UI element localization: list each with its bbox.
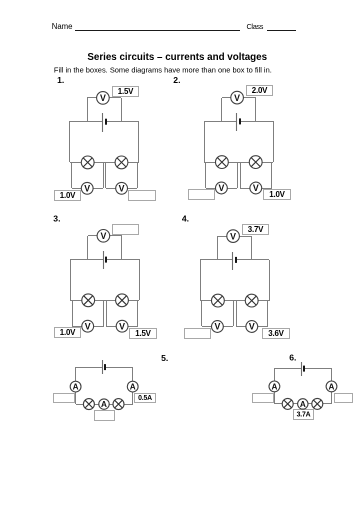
circuit 6: battery B6 short plate (303, 366, 305, 372)
circuit 2: wire V-meter left stub (222, 97, 231, 99)
circuit 2: answer box bottom-left (empty) (189, 190, 215, 200)
svg-text:Fill in the boxes. Some diagra: Fill in the boxes. Some diagrams have mo… (54, 66, 272, 75)
circuit 5: lamp 1 (83, 399, 94, 410)
circuit 2: wire drop left to V1 (205, 162, 207, 188)
circuit 5: ammeter A3 middle (99, 399, 109, 409)
circuit 4: battery B4 long plate (232, 252, 234, 270)
circuit 4: wire drop mid-left to V1 (233, 301, 235, 326)
circuit 5: wire bottom right (124, 404, 133, 406)
circuit 4: wire loop left edge (200, 260, 202, 301)
circuit 3: wire battery to top right (106, 259, 139, 261)
svg-text:1.0V: 1.0V (269, 190, 285, 199)
circuit 1: voltmeter V2 across lamp 2 (116, 182, 128, 194)
circuit 3: wire V2 level left (106, 326, 116, 328)
circuit 2: wire top left to battery (204, 121, 237, 123)
svg-text:1.: 1. (57, 75, 64, 85)
circuit 1: wire V2 level left (106, 188, 116, 190)
circuit 1: wire V2 level right (127, 188, 137, 190)
circuit 5: battery B5 short plate (104, 364, 106, 370)
circuit 1: wire V-meter left drop (87, 98, 89, 121)
circuit 2: wire lamp row left (204, 162, 216, 164)
circuit 2: answer box bottom-right (1.0V) (264, 190, 291, 200)
circuit 5: wire bottom left (76, 404, 83, 406)
circuit 2: wire loop left edge (204, 121, 206, 162)
circuit 4: wire top left to battery (200, 259, 233, 261)
circuit 1: wire top left to battery (70, 121, 103, 123)
circuit 5: wire ammeter to lamp2 (109, 404, 113, 406)
circuit 5: wire left edge lower (75, 392, 77, 404)
svg-text:Class: Class (247, 22, 264, 31)
circuit 1: wire drop right to V2 (137, 162, 139, 188)
circuit 3: wire V1 level right (94, 326, 104, 328)
circuit 5: answer box bottom (empty) (95, 411, 115, 421)
circuit 2: wire V-meter left drop (221, 98, 223, 121)
svg-text:1.0V: 1.0V (60, 191, 76, 200)
circuit 6: wire bottom right (323, 403, 332, 405)
svg-text:V: V (100, 231, 106, 241)
svg-text:2.0V: 2.0V (252, 86, 268, 95)
circuit 2: wire drop right to V2 (271, 162, 273, 188)
circuit 3: wire lamp row middle (95, 300, 116, 302)
circuit 1: wire V1 level right (93, 188, 103, 190)
circuit 4: wire V1 level left (202, 326, 212, 328)
circuit 1: answer box bottom-right (empty) (129, 191, 156, 201)
circuit 5: wire lamp1 to ammeter (94, 404, 99, 406)
circuit 2: voltmeter across battery (231, 91, 244, 104)
circuit 2: lamp 1 (216, 156, 229, 169)
circuit 6: wire lamp1 to ammeter (293, 403, 298, 405)
svg-text:V: V (85, 321, 91, 331)
svg-text:V: V (84, 184, 90, 194)
circuit 5: wire right edge upper (132, 367, 134, 381)
circuit 3: lamp 2 (116, 294, 129, 307)
circuit 1: wire lamp row left (70, 162, 81, 164)
circuit 3: answer box top (empty) (113, 225, 139, 235)
circuit 4: battery B4 short plate (235, 257, 237, 263)
circuit 3: lamp 1 (82, 294, 95, 307)
svg-text:V: V (253, 183, 259, 193)
svg-text:5.: 5. (161, 353, 168, 363)
circuit 3: wire loop left edge (70, 259, 72, 300)
circuit 5: ammeter A2 right (127, 381, 138, 392)
circuit 6: ammeter A2 right (326, 381, 337, 392)
circuit 4: wire V-meter left stub (218, 236, 227, 238)
circuit 3: wire top left to battery (70, 259, 103, 261)
circuit 4: wire loop right edge (269, 260, 271, 301)
svg-text:V: V (214, 322, 220, 332)
circuit 4: wire drop mid-right to V2 (236, 301, 238, 326)
circuit 2: wire battery to top right (240, 121, 273, 123)
circuit 6: ammeter A1 left (269, 381, 280, 392)
circuit 2: wire V2 level right (262, 188, 272, 190)
circuit 2: wire V-meter right stub (243, 97, 256, 99)
circuit 6: wire right edge upper (331, 369, 333, 381)
circuit 5: answer box left (empty) (54, 394, 75, 403)
circuit 1: wire V-meter right stub (109, 97, 121, 99)
circuit 4: wire lamp row middle (224, 300, 245, 302)
circuit 6: answer box bottom (3.7A) (294, 410, 314, 420)
circuit 3: wire V-meter left drop (87, 236, 89, 259)
circuit 1: voltmeter across battery (97, 92, 110, 105)
circuit 4: wire lamp row left (200, 300, 212, 302)
circuit 6: wire ammeter to lamp2 (308, 403, 312, 405)
svg-text:6.: 6. (289, 353, 296, 363)
circuit 6: answer box right (empty) (335, 394, 353, 403)
circuit 3: answer box bottom-right (1.5V) (130, 329, 157, 339)
circuit 6: wire right edge lower (331, 392, 333, 404)
svg-text:V: V (119, 184, 125, 194)
circuit 4: answer box bottom-right (3.6V) (263, 329, 290, 339)
circuit 4: lamp 1 (212, 294, 225, 307)
circuit 4: answer box top (3.7V) (243, 225, 269, 235)
circuit 1: battery B1 short plate (105, 119, 107, 125)
circuit 6: lamp 1 (282, 398, 293, 409)
circuit 2: battery B2 long plate (236, 113, 238, 131)
svg-text:1.0V: 1.0V (60, 328, 76, 337)
circuit 1: answer box top (1.5V) (113, 87, 139, 97)
circuit 3: voltmeter V2 across lamp 2 (116, 320, 128, 332)
circuit 1: wire V-meter left stub (87, 97, 97, 99)
circuit 4: wire V2 level left (236, 326, 246, 328)
circuit 4: wire drop right to V2 (267, 301, 269, 326)
svg-text:3.7V: 3.7V (248, 225, 264, 234)
circuit 4: wire V-meter right drop (251, 236, 253, 260)
svg-text:Series circuits – currents and: Series circuits – currents and voltages (87, 52, 267, 63)
circuit 5: wire left edge upper (75, 367, 77, 381)
circuit 3: wire V-meter right drop (121, 236, 123, 259)
circuit 2: wire V1 level left (206, 188, 216, 190)
circuit 2: voltmeter V1 across lamp 1 (216, 182, 228, 194)
circuit 3: wire V1 level left (72, 326, 82, 328)
circuit 1: wire lamp row middle (94, 162, 115, 164)
circuit 6: wire left edge upper (274, 369, 276, 381)
circuit 2: voltmeter V2 across lamp 2 (250, 182, 262, 194)
circuit 6: wire left edge lower (274, 392, 276, 404)
circuit 3: battery B3 short plate (105, 257, 107, 263)
circuit 1: lamp 2 (115, 156, 128, 169)
circuit 6: wire battery to top right (304, 368, 332, 370)
circuit 5: wire top left to battery (76, 367, 103, 369)
circuit 2: wire V2 level left (240, 188, 250, 190)
svg-text:1.5V: 1.5V (118, 87, 134, 96)
circuit 2: wire drop mid-left to V1 (237, 162, 239, 188)
circuit 5: battery B5 long plate (102, 360, 104, 374)
circuit 5: ammeter A1 left (70, 381, 81, 392)
circuit 4: wire drop left to V1 (201, 301, 203, 326)
circuit 4: wire V2 level right (258, 326, 268, 328)
header: class underline (267, 30, 296, 32)
circuit 3: wire drop right to V2 (137, 300, 139, 326)
svg-text:A: A (271, 382, 277, 391)
circuit 4: lamp 2 (245, 294, 258, 307)
svg-text:2.: 2. (173, 75, 180, 85)
circuit 2: answer box top (2.0V) (247, 86, 273, 96)
circuit 2: wire V-meter right drop (255, 98, 257, 121)
svg-text:A: A (73, 383, 79, 392)
circuit 5: wire battery to top right (105, 367, 133, 369)
circuit 1: wire V-meter right drop (121, 98, 123, 121)
circuit 1: voltmeter V1 across lamp 1 (81, 182, 93, 194)
circuit 6: wire bottom left (274, 403, 282, 405)
circuit 2: wire drop mid-right to V2 (240, 162, 242, 188)
circuit 6: battery B6 long plate (301, 362, 303, 376)
circuit 2: wire lamp row right (262, 162, 273, 164)
svg-text:1.5V: 1.5V (135, 329, 151, 338)
circuit 2: wire loop right edge (273, 121, 275, 162)
circuit 3: battery B3 long plate (103, 251, 105, 269)
circuit 6: ammeter A3 middle (298, 399, 308, 409)
circuit 1: battery B1 long plate (102, 113, 104, 132)
circuit 3: wire loop right edge (139, 259, 141, 300)
circuit 3: wire drop left to V1 (72, 300, 74, 326)
svg-text:Name: Name (52, 22, 73, 31)
svg-text:V: V (230, 231, 236, 241)
svg-text:V: V (119, 321, 125, 331)
circuit 1: wire drop mid-left to V1 (103, 162, 105, 188)
svg-text:4.: 4. (182, 213, 189, 223)
svg-text:A: A (101, 400, 107, 409)
circuit 1: wire lamp row right (128, 162, 139, 164)
circuit 4: answer box bottom-left (empty) (185, 329, 211, 339)
svg-text:V: V (234, 93, 240, 103)
svg-text:3.7A: 3.7A (297, 412, 311, 419)
svg-text:3.: 3. (53, 214, 60, 224)
circuit 6: wire top left to battery (274, 368, 302, 370)
circuit 1: lamp 1 (81, 156, 94, 169)
svg-text:A: A (130, 383, 136, 392)
circuit 5: answer box right (0.5A) (135, 394, 156, 403)
circuit 1: wire loop left edge (69, 121, 71, 162)
circuit 6: answer box left (empty) (253, 394, 274, 403)
circuit 6: lamp 2 (312, 398, 323, 409)
circuit 1: wire drop left to V1 (71, 162, 73, 188)
circuit 4: wire V-meter right stub (239, 236, 252, 238)
circuit 4: voltmeter V1 across lamp 1 (212, 321, 224, 333)
circuit 2: wire V1 level right (227, 188, 237, 190)
circuit 5: wire right edge lower (132, 392, 134, 404)
circuit 3: voltmeter across battery (97, 230, 110, 243)
header: name underline (75, 30, 240, 32)
svg-text:V: V (100, 93, 106, 103)
svg-text:V: V (249, 322, 255, 332)
circuit 3: wire V2 level right (128, 326, 138, 328)
circuit 4: wire lamp row right (258, 300, 269, 302)
circuit 3: wire drop mid-left to V1 (103, 300, 105, 326)
circuit 3: answer box bottom-left (1.0V) (55, 328, 81, 338)
svg-text:V: V (218, 183, 224, 193)
circuit 5: lamp 2 (113, 399, 124, 410)
circuit 4: voltmeter across battery (227, 230, 240, 243)
circuit 1: wire loop right edge (138, 121, 140, 162)
circuit 3: wire lamp row left (70, 300, 82, 302)
circuit 1: wire drop mid-right to V2 (105, 162, 107, 188)
circuit 2: battery B2 short plate (239, 118, 241, 124)
svg-text:0.5A: 0.5A (138, 395, 152, 402)
svg-text:A: A (300, 400, 306, 409)
circuit 3: wire V-meter right stub (110, 235, 122, 237)
circuit 4: wire battery to top right (236, 259, 269, 261)
circuit 4: voltmeter V2 across lamp 2 (246, 321, 258, 333)
circuit 3: wire V-meter left stub (88, 235, 97, 237)
svg-text:A: A (329, 382, 335, 391)
svg-text:3.6V: 3.6V (268, 329, 284, 338)
circuit 2: wire lamp row middle (228, 162, 249, 164)
circuit 3: wire drop mid-right to V2 (106, 300, 108, 326)
circuit 4: wire V1 level right (223, 326, 233, 328)
circuit 1: answer box bottom-left (1.0V) (55, 191, 81, 201)
circuit 1: wire battery to top right (106, 121, 139, 123)
circuit 2: lamp 2 (249, 156, 262, 169)
circuit 4: wire V-meter left drop (217, 236, 219, 260)
circuit 3: voltmeter V1 across lamp 1 (82, 320, 94, 332)
circuit 1: wire V1 level left (72, 188, 81, 190)
circuit 3: wire lamp row right (128, 300, 139, 302)
